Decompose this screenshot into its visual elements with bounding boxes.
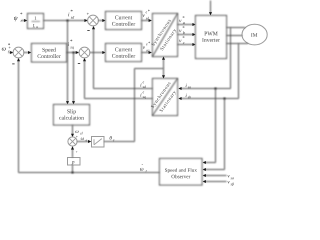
wire isa to transform T2	[178, 84, 230, 90]
wire isa drop to observer	[203, 89, 216, 165]
node junction isa drop	[215, 88, 217, 90]
block pole pairs p	[68, 158, 81, 166]
transform block T2 stationary to synchronous	[151, 79, 178, 116]
node isq* label	[68, 40, 74, 50]
wire CC2 to transform T1, label vsq_e*	[142, 42, 152, 54]
wire DC link into PWM top	[209, 1, 212, 16]
wire current tap b	[238, 44, 240, 99]
wire phase a PWM to motor	[227, 27, 246, 29]
wire S2 to speed controller	[24, 51, 31, 54]
wire junction up to p block	[72, 165, 74, 173]
block PWM inverter	[196, 16, 227, 59]
node psi_r* flux reference label	[14, 13, 22, 22]
wire 1/Lm output to summer S1	[44, 19, 88, 22]
wire theta_e to transform blocks	[104, 57, 165, 142]
wire T2 output isd_e feedback to S1	[92, 26, 153, 89]
block 1/Lm	[28, 14, 44, 29]
wire T2 output isq_e feedback to S3	[83, 58, 153, 99]
wire T1 output vb*	[178, 26, 196, 36]
wire vs-beta input to observer	[203, 180, 234, 186]
wire omega_e to integrator	[77, 137, 91, 143]
wire isb to transform T2	[178, 94, 238, 100]
wire T1 output va*	[178, 16, 196, 26]
wire p to summer S4	[71, 146, 78, 157]
node junction isd* branch	[67, 20, 69, 22]
wire S3 to current controller 2	[90, 51, 106, 54]
block current controller 1	[106, 12, 142, 30]
wire speed controller to summer S3	[67, 51, 80, 54]
node junction isq* branch	[73, 52, 75, 54]
node theta_e label	[110, 136, 115, 141]
block slip calculation	[54, 105, 90, 126]
node omega_r* speed reference label	[2, 43, 10, 52]
wire psi input to 1/Lm	[22, 19, 28, 22]
summer S3	[78, 47, 90, 64]
wire phase c PWM to motor	[227, 43, 249, 45]
wire slip output omega_sl to summer S4	[71, 125, 83, 138]
block integrator theta	[92, 137, 105, 148]
transform block T1 synchronous to stationary	[151, 14, 177, 57]
node junction isb drop	[224, 98, 226, 100]
summer S1	[87, 13, 99, 31]
block speed controller	[32, 44, 67, 63]
wire current tap a	[230, 28, 232, 89]
block current controller 2	[106, 44, 142, 62]
summer S2	[12, 47, 24, 64]
block speed and flux observer	[160, 159, 203, 186]
wire omega_r hat feedback to S2	[17, 58, 160, 173]
wire vs-alpha input to observer	[203, 174, 234, 179]
wire phase b PWM to motor	[227, 35, 243, 37]
wire isd* drop to slip calculation	[66, 21, 69, 105]
wire CC1 to transform T1, label vsd_e*	[142, 10, 152, 22]
node junction omega_r to p block	[72, 172, 74, 174]
summer S4	[68, 137, 77, 146]
node isd* label	[68, 10, 74, 19]
wire isb drop to observer	[203, 99, 225, 172]
wire isq* drop to slip calculation	[72, 53, 75, 105]
wire omega input to summer S2	[9, 47, 14, 54]
wire S1 to current controller 1	[98, 19, 105, 22]
motor IM	[242, 24, 267, 45]
wire T1 output vc*	[178, 36, 196, 46]
